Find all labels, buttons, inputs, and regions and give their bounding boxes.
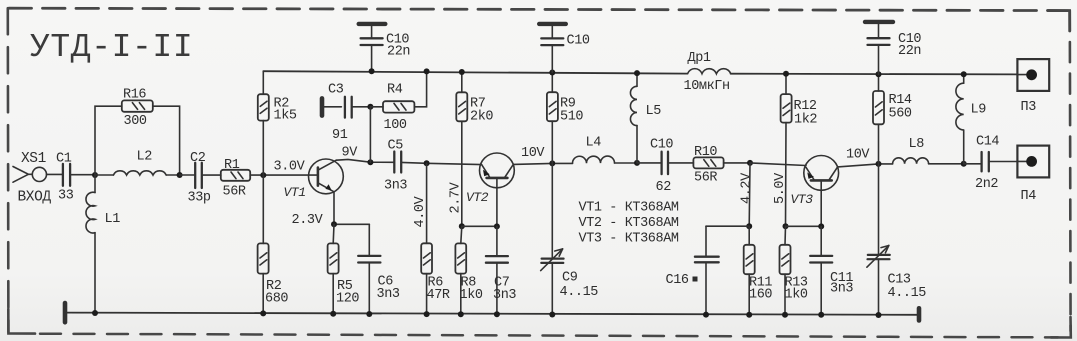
svg-text:VT1 - КТ368АМ: VT1 - КТ368АМ [579,201,679,216]
resistor R8 1k0 [455,226,466,314]
svg-text:10V: 10V [846,148,870,163]
svg-text:3.0V: 3.0V [274,159,306,174]
svg-text:C3: C3 [328,83,344,98]
svg-text:C10: C10 [650,138,673,153]
node ground C6 [366,311,372,317]
svg-text:9V: 9V [342,146,359,161]
capacitor C10 22n second + top ground bar [539,24,566,73]
wire node B to C2 [180,174,195,176]
node ground R8 [458,311,464,317]
svg-text:L2: L2 [137,150,153,165]
node O junction VT3 base [818,223,824,229]
node rail R7 [459,69,465,75]
svg-text:Др1: Др1 [688,51,711,66]
resistor R7 2k0 [456,72,467,226]
svg-text:C14: C14 [976,135,999,150]
svg-text:56R: 56R [223,185,246,200]
svg-text:R4: R4 [387,83,403,98]
node ground C16 [703,312,709,318]
svg-text:C9: C9 [562,271,578,286]
svg-text:91: 91 [332,128,348,143]
node rail L9 [961,71,967,77]
node P junction R14/C13 [876,161,882,167]
node rail L5 [634,70,640,76]
svg-text:VT2 - КТ368АМ: VT2 - КТ368АМ [579,216,679,231]
svg-text:10V: 10V [521,146,545,161]
ground bar C3 [320,98,325,115]
wire emitter VT1 to C6 [334,223,369,225]
wire VT2 collector 10V line [513,163,572,164]
svg-text:R1: R1 [224,158,240,173]
svg-text:XS1: XS1 [21,151,46,167]
svg-text:R16: R16 [123,88,146,103]
choke Dr1 [688,69,731,74]
inductor L9 [956,74,964,164]
svg-text:L8: L8 [909,137,925,152]
svg-text:2n2: 2n2 [975,177,998,192]
node K junction L4/L5/C10-62 [634,160,640,166]
svg-text:22n: 22n [387,45,410,60]
svg-text:4.0V: 4.0V [413,195,428,227]
resistor R11 160 [744,226,755,315]
svg-text:1k5: 1k5 [274,109,297,124]
svg-text:2.7V: 2.7V [449,181,464,213]
node ground R6 [424,311,430,317]
connector XS1 input arrow [13,167,32,183]
inductor L2 [95,171,180,175]
capacitor C5 3n3 [394,152,401,173]
svg-text:4..15: 4..15 [560,285,599,300]
svg-text:УТД-I-II: УТД-I-II [30,29,193,66]
node A junction [92,172,98,178]
svg-text:120: 120 [336,292,359,307]
svg-text:П3: П3 [1021,100,1037,115]
node L junction R11 drop [747,160,753,166]
svg-text:VT3: VT3 [791,192,814,207]
svg-text:100: 100 [384,118,407,133]
wire C16 link [706,225,749,227]
node rail R9 [549,70,555,76]
svg-text:1k0: 1k0 [785,288,808,303]
capacitor C6 3n3 [358,224,380,314]
node Q junction L8/L9/C14 [961,161,967,167]
svg-text:C1: C1 [56,152,72,167]
resistor R16 300 [122,100,153,111]
node rail R4 [424,68,430,74]
resistor R2 1k5 [258,71,269,175]
svg-text:680: 680 [265,292,288,307]
svg-text:C2: C2 [190,151,206,166]
svg-text:33: 33 [58,189,74,204]
resistor R1 56R [221,170,250,181]
wire C1 to node A [70,174,95,176]
capacitor C10 62 series [637,152,693,174]
svg-text:47R: 47R [427,288,450,303]
resistor R16 300 bypass wires [95,106,180,175]
inductor L5 [630,73,637,163]
node ground C11 [818,312,824,318]
top supply rail [263,71,1017,74]
capacitor C13 4..15 variable [867,164,890,315]
connector P4 [1017,146,1049,178]
node M junction R11/C16 [746,223,752,229]
svg-text:VT1: VT1 [284,185,306,200]
resistor R6 47R [421,163,432,314]
capacitor C11 3n3 [810,226,832,314]
capacitor C7 3n3 [486,226,508,314]
svg-text:160: 160 [749,288,772,303]
node D junction 9V/C3R4 drop [367,159,373,165]
svg-text:3n3: 3n3 [830,282,853,297]
node rail C10 first [369,68,375,74]
node rail R14 [876,71,882,77]
wire C5 to VT2 emitter [401,162,481,164]
node ground R11 [746,312,752,318]
node I junction VT2 base [494,223,500,229]
svg-text:L9: L9 [971,103,987,118]
resistor R4 100 [370,71,426,112]
wire XS1 to C1 [47,173,63,175]
wire base divider to VT2 base [462,225,497,227]
svg-text:3n3: 3n3 [377,287,400,302]
svg-text:4..15: 4..15 [888,286,927,301]
ground bar left [63,303,68,322]
svg-text:3n3: 3n3 [493,288,516,303]
capacitor C2 33p [195,163,202,188]
svg-text:1k2: 1k2 [794,113,817,128]
svg-text:300: 300 [124,114,147,129]
svg-text:56R: 56R [694,171,717,186]
node B junction L2/C2 [177,172,183,178]
node ground C7 [494,311,500,317]
wire base divider to VT3 base [786,225,822,227]
node E junction emitter VT1 [331,221,337,227]
svg-text:33p: 33p [188,191,211,206]
node ground R13 [782,312,788,318]
inductor L4 [572,156,637,163]
wire C2 to R1 [202,174,221,176]
transistor VT2 [480,153,515,226]
svg-text:R10: R10 [694,145,717,160]
capacitor C10 22n first + top ground bar [359,24,386,71]
wire R11 drop [748,163,751,226]
svg-text:5.0V: 5.0V [773,172,788,204]
capacitor C14 2n2 [964,152,1018,171]
connector XS1 circle [32,167,46,181]
node ground C13 [876,312,882,318]
svg-text:4.2V: 4.2V [740,172,755,204]
node C junction base VT1 [260,172,266,178]
inductor L1 [86,175,95,313]
node H junction R7/R8 base divider [459,223,465,229]
transistor VT3 [804,156,839,227]
resistor R2 680 [258,175,269,313]
node G junction R6 drop [424,160,430,166]
svg-text:2.3V: 2.3V [292,213,324,228]
ground rail [65,313,919,315]
svg-text:510: 510 [560,110,583,125]
capacitor C1 33 [63,164,70,186]
capacitor C16* [695,226,719,314]
wire VT3 collector 10V line [838,164,893,167]
resistor R14 560 [873,74,884,164]
node N junction R12/R13 [783,223,789,229]
node ground L1 [92,310,98,316]
wire R1 to node C (VT1 base) [250,174,318,176]
svg-text:C5: C5 [388,139,404,154]
capacitor C3 91 [324,97,370,118]
svg-text:VT3 - КТ368АМ: VT3 - КТ368АМ [579,232,679,247]
svg-text:ВХОД: ВХОД [18,190,52,206]
svg-text:L1: L1 [105,212,121,227]
svg-text:22n: 22n [898,44,921,59]
wire VT1 collector 9V line [336,159,394,162]
svg-text:L5: L5 [646,104,662,119]
node F junction C3/R4 [367,104,373,110]
svg-text:560: 560 [889,107,912,122]
resistor R10 56R [693,157,750,168]
capacitor C9 4..15 variable [541,163,564,314]
svg-text:1k0: 1k0 [460,288,483,303]
resistor R9 510 [547,73,558,164]
svg-text:П4: П4 [1021,189,1037,204]
svg-text:C10: C10 [567,34,590,49]
node J junction R9/C9 [549,160,555,166]
resistor R5 120 [328,224,339,313]
svg-text:C16: C16 [666,273,689,288]
resistor R12 1k2 [781,74,792,227]
wire node F down to 9V line [369,107,371,162]
transistor VT1 [309,159,344,224]
svg-text:2k0: 2k0 [470,110,493,125]
svg-text:VT2: VT2 [466,190,489,205]
ground bar right [917,308,922,320]
svg-text:62: 62 [656,180,672,195]
node ground R2 680 [260,310,266,316]
wire emitter line to VT3 [750,163,806,166]
inductor L8 [893,158,964,164]
capacitor C10 22n third + top ground bar [865,22,893,74]
svg-text:L4: L4 [586,136,602,151]
connector P3 [1017,59,1049,91]
svg-text:3n3: 3n3 [384,179,407,194]
resistor R13 1k0 [780,226,791,314]
node ground R5 [330,311,336,317]
svg-text:10мкГн: 10мкГн [684,79,730,94]
node ground C9 [549,312,555,318]
node rail R12 [783,71,789,77]
